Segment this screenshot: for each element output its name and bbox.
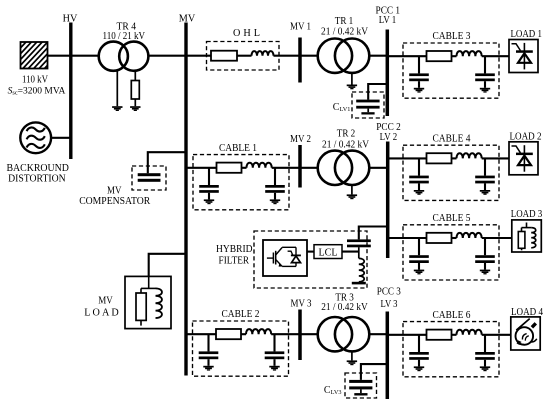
wire TR2 to LV2 [369, 167, 387, 169]
shunt capacitor CABLE 4 left [418, 158, 420, 175]
wire CABLE 1 right [272, 167, 318, 169]
svg-text:CABLE 4: CABLE 4 [433, 133, 471, 144]
cable block CABLE 2 [193, 321, 289, 376]
wire MV bus to MV load [149, 254, 186, 277]
svg-text:HYBRID: HYBRID [216, 244, 253, 255]
wire CABLE 2 left [186, 333, 216, 335]
wire CABLE 1 mid [242, 167, 247, 169]
shunt capacitor CABLE 5 right [484, 238, 486, 255]
wire OHL to TR1 [274, 55, 319, 57]
wire CABLE 6 left [387, 334, 426, 336]
ground CABLE 4 left [414, 190, 424, 192]
wire LCL to filter cap [342, 251, 359, 253]
svg-text:MV: MV [179, 14, 196, 25]
load MV LOAD [125, 276, 171, 328]
LOAD 4 arc furnace symbol [516, 327, 534, 345]
shunt capacitor CABLE 3 left [418, 56, 420, 73]
shunt capacitor CABLE 2 right [273, 334, 275, 351]
svg-text:LCL: LCL [319, 246, 338, 258]
svg-text:HV: HV [63, 14, 78, 25]
wire CABLE 6 right [482, 334, 511, 336]
wire CABLE 6 mid [452, 334, 457, 336]
bus LV1 PCC1 [386, 30, 390, 117]
TR3 neutral lead [351, 351, 353, 360]
svg-text:MV 2: MV 2 [290, 134, 311, 145]
shunt capacitor CABLE 4 right [484, 158, 486, 175]
svg-text:FILTER: FILTER [219, 256, 250, 267]
series resistor CABLE 5 [427, 233, 452, 243]
filter capacitor [347, 239, 371, 242]
series resistor CABLE 6 [427, 330, 452, 340]
ground TR2 [347, 194, 357, 196]
wire TR4 to OHL [148, 55, 211, 57]
svg-text:LV 3: LV 3 [381, 299, 398, 310]
svg-text:DISTORTION: DISTORTION [8, 173, 66, 184]
filter junction vertical [358, 247, 360, 258]
shunt capacitor CABLE 1 left [208, 168, 210, 185]
svg-text:BACKROUND: BACKROUND [6, 163, 69, 174]
wire CABLE 3 mid [452, 55, 457, 57]
ground CABLE 5 left [414, 270, 424, 272]
capacitor CLV1 [352, 92, 384, 118]
wire distortion to HV bus [51, 137, 71, 139]
thyristor valve D1 [295, 247, 297, 255]
capacitor MV compensator [132, 166, 166, 190]
wire source to TR4 [48, 55, 99, 57]
series resistor CABLE 3 [427, 51, 452, 61]
wire TR1 to LV1 [369, 55, 387, 57]
wire filter cap to LV2 bus [359, 227, 388, 240]
ground CABLE 3 left [414, 88, 424, 90]
TR4 neutral lead left [116, 70, 118, 106]
ground CABLE 6 left [414, 366, 424, 368]
bus MV3 [298, 310, 302, 361]
filter LCL [314, 245, 342, 259]
svg-text:TR 2: TR 2 [337, 128, 356, 139]
wire LV1 to CLV1 [368, 84, 387, 100]
source background distortion [20, 122, 51, 153]
wire CABLE 4 left [388, 157, 427, 159]
svg-text:MV: MV [98, 295, 113, 306]
svg-text:OHL: OHL [233, 28, 260, 39]
wire OHL mid [237, 55, 252, 57]
transformer TR4 [99, 42, 128, 71]
cable block CABLE 1 [193, 155, 289, 210]
ground TR1 [347, 85, 357, 87]
bus HV [69, 23, 72, 160]
ground TR4 right [130, 106, 140, 108]
wire CABLE 4 mid [452, 157, 457, 159]
wire resistor to ground [134, 99, 136, 106]
series inductor CABLE 6 [457, 330, 482, 335]
ground TR3 [347, 360, 357, 362]
series inductor CABLE 4 [457, 153, 482, 158]
wire CABLE 3 right [482, 55, 509, 57]
shunt capacitor CABLE 2 left [207, 334, 209, 351]
wire CABLE 5 mid [452, 237, 457, 239]
shunt capacitor CABLE 1 right [274, 168, 276, 185]
ground CABLE 2 left [203, 366, 213, 368]
wire CABLE 3 left [387, 55, 426, 57]
svg-text:CABLE 6: CABLE 6 [433, 310, 471, 321]
ground CABLE 3 right [480, 88, 490, 90]
series inductor CABLE 1 [247, 163, 272, 168]
svg-text:LOAD 2: LOAD 2 [510, 131, 542, 142]
svg-text:LOAD 1: LOAD 1 [510, 29, 542, 40]
series inductor OHL [252, 51, 274, 56]
ground CABLE 4 right [480, 190, 490, 192]
svg-text:PCC 3: PCC 3 [377, 286, 401, 297]
wire LV3 to CLV3 [361, 364, 387, 380]
wire CABLE 5 right [482, 237, 512, 239]
wire converter bottom rail [282, 265, 296, 267]
series resistor OHL [211, 51, 237, 61]
svg-text:CABLE 5: CABLE 5 [433, 213, 471, 224]
svg-text:110 kV: 110 kV [22, 75, 49, 86]
transformer TR3 [318, 317, 352, 351]
svg-text:LV 1: LV 1 [379, 15, 397, 26]
ground CABLE 1 left [204, 199, 214, 201]
svg-text:CABLE 1: CABLE 1 [219, 143, 257, 154]
series resistor CABLE 4 [427, 153, 452, 163]
wire CABLE 5 left [388, 237, 427, 239]
bus MV2 [298, 145, 302, 188]
TR1 neutral lead [351, 73, 353, 85]
series resistor CABLE 1 [217, 163, 242, 173]
OHL block [207, 42, 280, 71]
TR4 neutral lead right [134, 71, 136, 81]
ground TR4 left [112, 106, 122, 108]
cable block CABLE 3 [403, 43, 499, 98]
svg-text:MV 3: MV 3 [291, 298, 312, 309]
bus LV2 PCC2 [386, 142, 390, 259]
wire MV bus to compensator [148, 152, 186, 173]
filter inductor [359, 258, 364, 281]
svg-text:TR 1: TR 1 [335, 16, 354, 27]
svg-text:LV 2: LV 2 [380, 132, 398, 143]
ground CABLE 2 right [269, 366, 279, 368]
IGBT Q1 [267, 257, 274, 259]
ground CABLE 1 right [270, 199, 280, 201]
cable block CABLE 4 [403, 145, 499, 200]
series inductor CABLE 2 [246, 329, 271, 334]
hybrid filter block [254, 231, 367, 288]
filter bottom terminal [352, 282, 366, 285]
TR2 neutral lead [351, 185, 353, 194]
shunt capacitor CABLE 5 left [418, 238, 420, 255]
ground CABLE 5 right [480, 270, 490, 272]
svg-text:21 / 0.42 kV: 21 / 0.42 kV [321, 302, 368, 313]
bus MV [184, 23, 187, 376]
shunt capacitor CABLE 6 right [484, 335, 486, 352]
wire CABLE 2 right [271, 333, 318, 335]
transformer TR2 [318, 151, 352, 185]
svg-text:LOAD 3: LOAD 3 [511, 209, 543, 220]
series inductor CABLE 3 [457, 51, 482, 56]
series inductor CABLE 5 [457, 233, 482, 238]
wire TR3 to LV3 [369, 333, 387, 335]
wire converter to LCL [307, 251, 314, 253]
svg-text:21 / 0.42 kV: 21 / 0.42 kV [322, 139, 370, 150]
capacitor CLV3 [345, 373, 377, 398]
bus LV3 PCC3 [386, 312, 390, 400]
wire CABLE 4 right [482, 157, 509, 159]
cable block CABLE 5 [403, 225, 499, 280]
shunt capacitor CABLE 6 left [418, 335, 420, 352]
series resistor CABLE 2 [216, 329, 241, 339]
cable block CABLE 6 [403, 322, 499, 377]
bus MV1 [298, 38, 302, 83]
svg-text:CABLE 2: CABLE 2 [222, 309, 260, 320]
ground CABLE 6 right [480, 366, 490, 368]
svg-text:COMPENSATOR: COMPENSATOR [79, 196, 150, 207]
svg-text:CABLE 3: CABLE 3 [433, 31, 471, 42]
converter U1 [263, 240, 307, 276]
wire CABLE 1 left [186, 167, 217, 169]
grounding resistor TR4 [131, 81, 139, 100]
svg-text:LOAD: LOAD [84, 308, 119, 319]
wire converter top rail [282, 246, 296, 248]
wire CABLE 2 mid [241, 333, 246, 335]
svg-text:21 / 0.42 kV: 21 / 0.42 kV [321, 26, 369, 37]
svg-text:MV 1: MV 1 [290, 22, 311, 33]
shunt capacitor CABLE 3 right [484, 56, 486, 73]
transformer TR1 [318, 39, 352, 73]
svg-text:110 / 21 kV: 110 / 21 kV [103, 31, 146, 42]
